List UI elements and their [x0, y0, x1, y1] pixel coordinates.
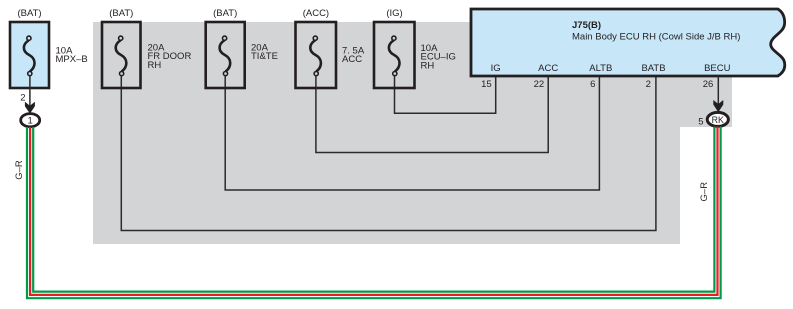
svg-text:ALTB: ALTB [589, 63, 612, 74]
svg-text:(BAT): (BAT) [213, 8, 237, 19]
fuse F2 (BAT) 20A FR DOOR RH [102, 22, 141, 88]
svg-text:RH: RH [148, 60, 162, 71]
wire F2 to BATB pin 2 [121, 76, 656, 231]
svg-text:6: 6 [590, 79, 595, 90]
wire BECU pin 26 to connector RK [717, 76, 719, 106]
svg-text:ACC: ACC [342, 54, 362, 65]
junction block shaded area (J/B gray region) [93, 22, 732, 244]
svg-text:MPX–B: MPX–B [56, 54, 88, 65]
connector arrow at node RK [713, 100, 723, 112]
svg-text:22: 22 [534, 79, 545, 90]
svg-text:2: 2 [646, 79, 651, 90]
svg-text:J75(B): J75(B) [572, 20, 601, 31]
svg-text:G–R: G–R [14, 160, 25, 180]
wire F5 to IG pin 15 [395, 76, 496, 114]
fuse F3 (BAT) 20A TI&TE [206, 22, 245, 88]
connector arrow at node 1 [25, 102, 35, 114]
wire F1 to connector node 1 [29, 76, 31, 109]
wire G-R (green) inner run: node 1 to node RK [33, 127, 714, 292]
svg-text:15: 15 [481, 79, 492, 90]
svg-text:2: 2 [20, 92, 25, 103]
svg-text:(BAT): (BAT) [109, 8, 133, 19]
svg-text:Main Body ECU RH (Cowl Side J/: Main Body ECU RH (Cowl Side J/B RH) [572, 32, 740, 43]
svg-text:RK: RK [712, 115, 724, 125]
svg-text:(IG): (IG) [386, 8, 402, 19]
fuse F1 (BAT) 10A MPX-B [10, 22, 49, 88]
svg-text:BATB: BATB [641, 63, 665, 74]
svg-text:5: 5 [698, 116, 703, 127]
node 1 connector oval [21, 114, 40, 127]
svg-text:(BAT): (BAT) [17, 8, 41, 19]
svg-text:IG: IG [491, 63, 501, 74]
ECU connector block J75(B) Main Body ECU RH [471, 9, 785, 76]
svg-text:RH: RH [421, 61, 435, 72]
wire G-R (red tracer) middle run [30, 127, 717, 295]
svg-text:TI&TE: TI&TE [251, 51, 278, 62]
svg-text:1: 1 [28, 116, 33, 127]
node RK connector oval [707, 112, 728, 126]
svg-text:(ACC): (ACC) [303, 8, 329, 19]
svg-text:BECU: BECU [704, 63, 731, 74]
wire F4 to ACC pin 22 [316, 76, 548, 153]
svg-text:ACC: ACC [538, 63, 558, 74]
fuse F5 (IG) 10A ECU-IG RH [374, 22, 415, 88]
fuse F4 (ACC) 7.5A ACC [296, 22, 337, 88]
svg-text:G–R: G–R [699, 182, 710, 202]
svg-text:26: 26 [703, 79, 714, 90]
wire F3 to ALTB pin 6 [225, 76, 599, 191]
wire G-R (green) outer run [27, 127, 721, 299]
